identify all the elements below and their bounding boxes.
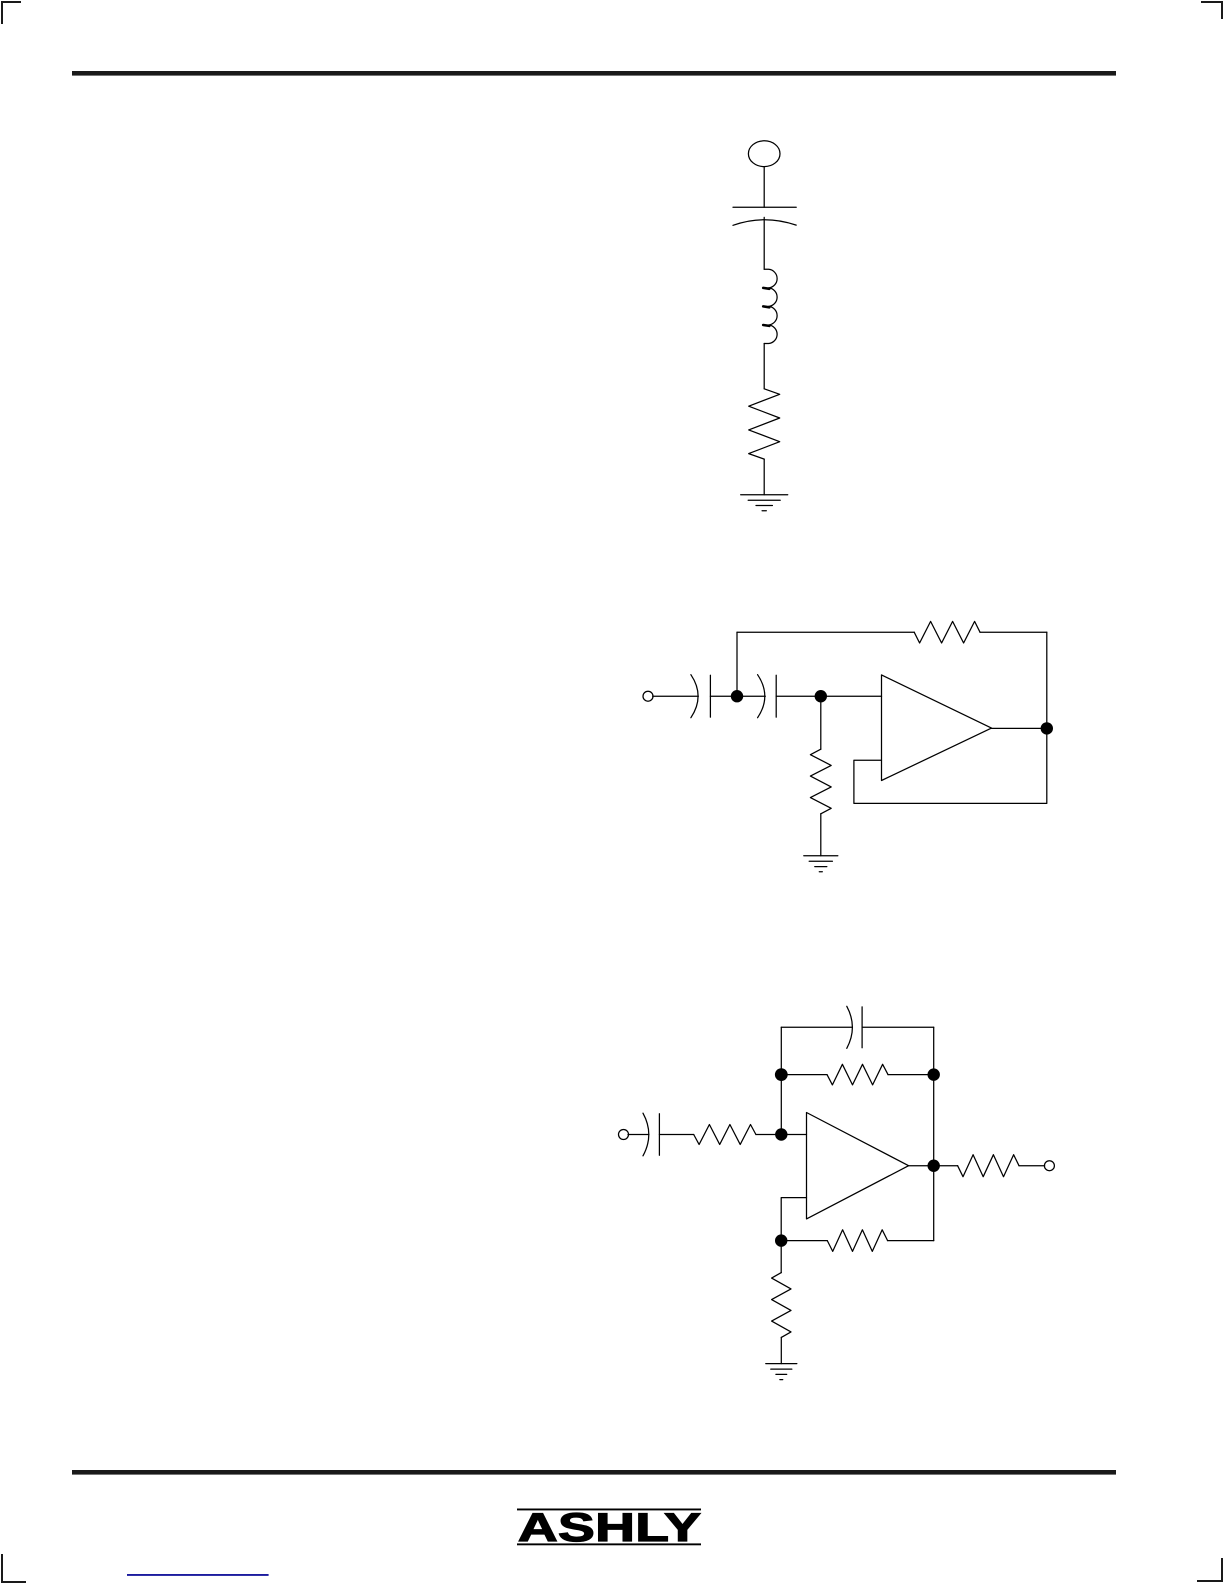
svg-text:ASHLY: ASHLY: [518, 1505, 701, 1550]
